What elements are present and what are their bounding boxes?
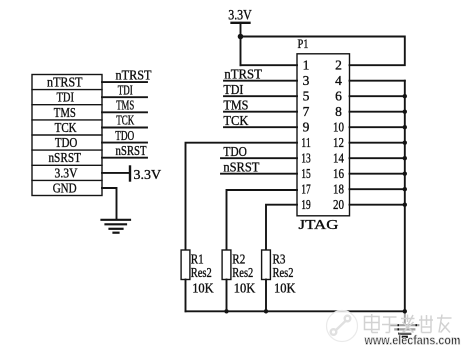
svg-text:15: 15 [301,166,311,181]
svg-text:20: 20 [333,197,344,212]
svg-text:nTRST: nTRST [116,67,153,82]
svg-text:11: 11 [301,135,311,150]
svg-text:R1: R1 [191,252,204,267]
svg-text:8: 8 [335,104,342,119]
svg-text:5: 5 [303,89,310,104]
svg-text:19: 19 [301,197,311,212]
svg-text:TDO: TDO [55,136,78,151]
svg-text:nTRST: nTRST [47,76,83,91]
svg-text:www.elecfans.com: www.elecfans.com [364,334,461,348]
svg-text:TMS: TMS [116,98,134,113]
svg-text:10K: 10K [274,282,296,297]
svg-text:7: 7 [303,104,310,119]
svg-text:10K: 10K [192,282,214,297]
svg-text:TDI: TDI [118,82,133,97]
svg-text:P1: P1 [298,36,309,51]
svg-text:2: 2 [335,58,342,73]
svg-text:1: 1 [303,58,310,73]
svg-text:17: 17 [301,182,311,197]
svg-text:3: 3 [303,73,310,88]
svg-text:nSRST: nSRST [48,151,81,166]
svg-text:TCK: TCK [116,113,134,128]
svg-text:Res2: Res2 [191,266,212,281]
svg-text:TMS: TMS [223,99,248,114]
svg-text:9: 9 [303,120,310,135]
svg-text:18: 18 [333,182,344,197]
svg-text:12: 12 [333,135,344,150]
svg-text:TDO: TDO [223,145,247,160]
svg-text:JTAG: JTAG [299,218,339,233]
svg-text:TDO: TDO [115,128,134,143]
svg-text:3.3V: 3.3V [134,168,162,183]
svg-text:TDI: TDI [56,91,74,106]
svg-text:GND: GND [53,182,77,197]
svg-text:nSRST: nSRST [223,161,259,176]
svg-text:TCK: TCK [223,114,248,129]
svg-text:Res2: Res2 [232,266,253,281]
svg-text:3.3V: 3.3V [228,8,252,24]
svg-text:10: 10 [333,120,344,135]
svg-text:13: 13 [301,151,311,166]
svg-text:TMS: TMS [54,106,76,121]
svg-text:nTRST: nTRST [224,68,262,83]
svg-text:3.3V: 3.3V [55,166,78,181]
svg-text:14: 14 [333,151,344,166]
svg-text:4: 4 [335,73,342,88]
svg-text:Res2: Res2 [273,266,294,281]
svg-text:R2: R2 [232,252,245,267]
svg-text:nSRST: nSRST [116,143,148,158]
svg-text:R3: R3 [273,252,286,267]
svg-text:6: 6 [335,89,342,104]
svg-text:10K: 10K [234,282,256,297]
svg-text:TDI: TDI [223,83,243,98]
svg-text:TCK: TCK [55,121,77,136]
svg-text:16: 16 [333,166,344,181]
